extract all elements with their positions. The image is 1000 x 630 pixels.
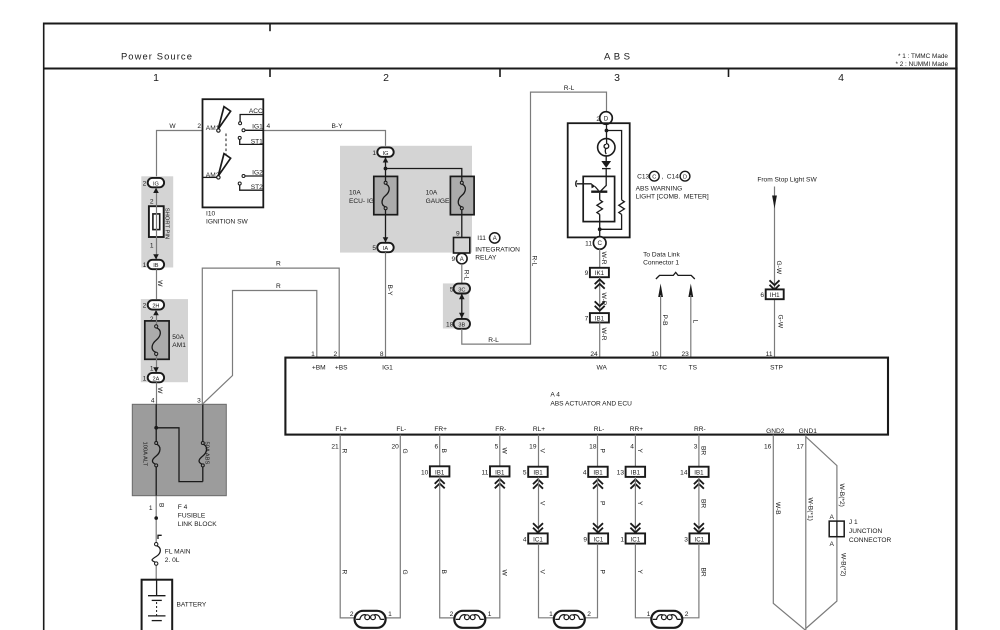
svg-text:10: 10: [651, 351, 659, 358]
svg-text:3: 3: [614, 72, 620, 84]
svg-text:IB: IB: [153, 263, 159, 269]
connector 18 3B oval: [446, 319, 470, 329]
wire RR+ Y lower: [635, 544, 651, 618]
arrow down into IB oval: [153, 254, 159, 259]
svg-text:3: 3: [684, 536, 688, 543]
contact ST1: [238, 136, 263, 145]
chevrons up below IB1 RL+: [533, 479, 543, 488]
chevrons up below IB1 FR-: [495, 479, 505, 488]
svg-text:11: 11: [585, 240, 592, 247]
svg-text:V: V: [539, 570, 546, 575]
svg-text:P-B: P-B: [661, 315, 668, 327]
svg-text:A: A: [493, 236, 497, 242]
svg-text:4: 4: [151, 398, 155, 405]
contact ACC: [239, 108, 263, 125]
svg-text:W: W: [500, 570, 507, 577]
fuse FL MAIN 2.0L: [152, 543, 191, 566]
svg-text:IB1: IB1: [595, 316, 605, 323]
svg-text:GND1: GND1: [799, 428, 818, 435]
svg-text:2: 2: [587, 611, 591, 618]
wire W from IB to 2H: [156, 269, 158, 300]
svg-text:,: ,: [662, 173, 664, 180]
transistor bar: [591, 190, 607, 192]
svg-text:11: 11: [766, 351, 773, 358]
resistor right zigzag: [619, 200, 625, 215]
svg-text:2: 2: [596, 116, 600, 123]
svg-text:ABS WARNING: ABS WARNING: [636, 186, 683, 193]
connector 3 IC1: [684, 533, 709, 543]
transistor Q base lead and hook: [576, 181, 592, 187]
wire W-B(*1) GND1 straight: [805, 435, 807, 630]
svg-text:10: 10: [421, 469, 429, 476]
svg-text:18: 18: [589, 443, 597, 450]
svg-text:13: 13: [617, 470, 625, 477]
junction node top: [605, 129, 609, 133]
wire B from block to battery: [155, 496, 157, 580]
contact IG2: [242, 169, 263, 177]
svg-text:P: P: [599, 449, 606, 454]
svg-text:L: L: [691, 320, 698, 324]
svg-text:FR+: FR+: [434, 426, 447, 433]
wire RL+ mid: [538, 477, 540, 534]
svg-text:I11: I11: [477, 235, 486, 242]
svg-text:9: 9: [452, 256, 456, 263]
svg-text:IGNITION SW: IGNITION SW: [206, 219, 249, 226]
svg-text:INTEGRATION: INTEGRATION: [475, 247, 520, 254]
connector 11 C circle: [585, 237, 606, 250]
svg-text:2: 2: [450, 611, 454, 618]
wire RL- mid: [597, 477, 599, 534]
wire FR+ B lower: [440, 477, 455, 618]
svg-text:D: D: [683, 174, 687, 180]
frame top border line: [43, 23, 958, 25]
connector 2 IG oval: [143, 178, 164, 187]
svg-text:* 2 : NUMMI Made: * 2 : NUMMI Made: [895, 61, 948, 68]
svg-text:20: 20: [391, 443, 399, 450]
svg-text:BR: BR: [699, 568, 706, 577]
fuse 50A AM1 box: [145, 321, 169, 359]
svg-text:BR: BR: [699, 446, 706, 455]
svg-text:IB1: IB1: [631, 470, 641, 477]
ignition switch I10 body: [203, 99, 264, 207]
svg-text:IG1: IG1: [382, 364, 393, 371]
wire between IK1 and IB1: [599, 277, 601, 313]
svg-text:1: 1: [311, 351, 315, 358]
svg-text:B-Y: B-Y: [386, 285, 393, 297]
svg-text:50A ABS: 50A ABS: [204, 442, 210, 465]
svg-text:C13: C13: [637, 173, 649, 180]
junction dot in block: [154, 426, 158, 430]
svg-text:RL-: RL-: [594, 426, 605, 433]
svg-text:2H: 2H: [152, 304, 159, 310]
chevrons down above IC1 RR-: [694, 523, 704, 532]
svg-text:FL MAIN: FL MAIN: [165, 549, 191, 556]
branch wire to GAUGE fuse: [386, 169, 462, 238]
svg-text:FL+: FL+: [335, 426, 347, 433]
svg-text:CONNECTOR: CONNECTOR: [849, 537, 892, 544]
svg-text:10A: 10A: [426, 190, 438, 197]
svg-text:IG2: IG2: [252, 169, 263, 176]
svg-text:100A ALT: 100A ALT: [142, 442, 148, 467]
svg-text:2A: 2A: [152, 376, 159, 382]
svg-text:V: V: [539, 501, 546, 506]
svg-text:A 4: A 4: [550, 391, 560, 398]
wire RL+ V upper: [538, 435, 540, 467]
svg-text:A: A: [829, 541, 834, 548]
svg-text:GAUGE: GAUGE: [426, 198, 450, 205]
svg-text:FR-: FR-: [495, 426, 506, 433]
frame right border: [955, 23, 957, 630]
emitter lead and resistor feed: [595, 187, 600, 237]
connector 9 IC1: [583, 533, 608, 543]
wire TC with up arrow: [658, 284, 663, 358]
svg-text:2: 2: [150, 199, 154, 206]
relay connector A circle pin 9: [452, 253, 468, 264]
svg-text:P: P: [599, 501, 606, 506]
svg-text:2: 2: [143, 180, 147, 187]
svg-text:IG1: IG1: [252, 123, 263, 130]
svg-text:4: 4: [267, 123, 271, 130]
chevrons up below IB1 RR-: [694, 479, 704, 488]
svg-text:AM1: AM1: [172, 342, 186, 349]
fuse 10A ECU-IG element: [349, 181, 389, 209]
svg-text:R-L: R-L: [462, 270, 469, 281]
gray panel short pin: [141, 176, 173, 267]
svg-text:1: 1: [488, 611, 492, 618]
svg-text:1: 1: [143, 375, 147, 382]
svg-text:Connector 1: Connector 1: [643, 260, 679, 267]
chevrons up below IK1: [595, 279, 605, 288]
svg-text:GND2: GND2: [766, 428, 785, 435]
wire TS with up arrow: [688, 284, 693, 358]
battery: [142, 580, 207, 630]
wire FL- G: [386, 435, 400, 618]
svg-text:RR+: RR+: [630, 426, 644, 433]
connector 13 IB1: [617, 467, 645, 477]
svg-text:5: 5: [450, 286, 454, 293]
transistor inner box: [583, 176, 614, 221]
speed sensor RR: [647, 611, 689, 628]
fuse 10A GAUGE element: [426, 181, 466, 209]
svg-text:C: C: [597, 240, 602, 247]
svg-text:W-R: W-R: [600, 328, 607, 341]
junction connector J1: [829, 514, 891, 548]
svg-text:P: P: [599, 570, 606, 575]
svg-text:6: 6: [435, 443, 439, 450]
svg-text:W-B: W-B: [774, 502, 781, 515]
arrow down into 2A oval: [153, 367, 159, 372]
svg-text:G: G: [401, 449, 408, 454]
connector 5 IA oval: [372, 243, 393, 252]
wire B-Y from ignition SW IG1 pin 4 to ECU-IG fuse: [264, 131, 386, 148]
svg-text:TC: TC: [658, 364, 667, 371]
svg-text:1: 1: [150, 366, 154, 373]
svg-text:W-B(*2): W-B(*2): [839, 553, 846, 576]
wire RR+ mid: [634, 477, 636, 534]
svg-text:R: R: [341, 570, 348, 575]
svg-text:B: B: [157, 503, 164, 508]
AM2 internal stub wire: [203, 176, 217, 178]
wire FR- W lower: [484, 477, 499, 618]
svg-text:2: 2: [685, 611, 689, 618]
speed sensor RL: [549, 611, 591, 628]
svg-text:2: 2: [334, 351, 338, 358]
connector 1 IG oval: [372, 147, 393, 156]
svg-text:R: R: [276, 283, 281, 290]
svg-text:7: 7: [585, 316, 589, 323]
fusible link block F4 body: [132, 404, 226, 495]
svg-text:1: 1: [647, 611, 651, 618]
combination meter outer box: [568, 123, 630, 237]
wire W-R from C to IK1: [599, 249, 601, 268]
svg-text:R-L: R-L: [488, 337, 499, 344]
svg-text:9: 9: [583, 536, 587, 543]
chevrons down above IB1: [595, 301, 605, 310]
wire W-R from IB1 to ABS WA pin 24: [599, 323, 601, 358]
svg-text:LINK BLOCK: LINK BLOCK: [178, 521, 217, 528]
svg-text:IB1: IB1: [694, 470, 704, 477]
svg-text:G-W: G-W: [775, 261, 782, 275]
svg-text:B: B: [440, 570, 447, 575]
connector 1 IC1: [620, 533, 645, 543]
connector 10 IB1: [421, 466, 449, 476]
svg-text:1: 1: [620, 536, 624, 543]
connector 2 2H oval: [143, 300, 164, 309]
column tick 1|2: [269, 69, 271, 78]
svg-text:J 1: J 1: [849, 519, 858, 526]
connector junction 6 IH1: [760, 289, 783, 299]
diode LED: [601, 161, 611, 169]
gray fuse panel col2: [340, 146, 472, 253]
gang dashed link: [225, 134, 227, 156]
svg-text:+BS: +BS: [335, 364, 348, 371]
svg-text:1: 1: [153, 72, 159, 84]
svg-text:IC1: IC1: [694, 536, 704, 543]
wire W from ignition SW AM1 pin 2 to connector IG: [157, 131, 203, 178]
svg-text:3: 3: [197, 398, 201, 405]
connector 11 IB1: [482, 466, 510, 476]
svg-text:9: 9: [585, 270, 589, 277]
svg-text:W: W: [156, 387, 163, 394]
svg-text:9: 9: [456, 231, 460, 238]
svg-text:R: R: [276, 261, 281, 268]
connector 1 2A oval: [143, 373, 164, 382]
svg-text:23: 23: [681, 351, 689, 358]
fuse 100A ALT: [142, 442, 160, 467]
connector 4 IC1: [523, 533, 548, 543]
AM2 lever: [217, 154, 231, 179]
connector 1 IB oval: [143, 260, 164, 269]
svg-text:17: 17: [796, 443, 804, 450]
chevrons down above IC1 RL+: [533, 523, 543, 532]
wire RR- BR upper: [698, 435, 700, 467]
svg-text:ABS: ABS: [604, 52, 633, 63]
lamp ABS warning bulb: [598, 139, 615, 156]
column tick 2|3: [499, 69, 501, 78]
svg-text:BR: BR: [699, 499, 706, 508]
wire RR- mid: [698, 477, 700, 534]
chevrons down above IC1 RL-: [593, 523, 603, 532]
inline connector hook: [158, 535, 162, 539]
svg-text:F 4: F 4: [178, 504, 188, 511]
svg-text:4: 4: [838, 72, 844, 84]
svg-text:BATTERY: BATTERY: [177, 602, 207, 609]
wire RL- P lower: [584, 544, 598, 618]
svg-text:IB1: IB1: [435, 469, 445, 476]
svg-text:2. 0L: 2. 0L: [165, 557, 180, 564]
svg-text:5: 5: [372, 245, 376, 252]
arrow up into IG oval: [153, 188, 159, 193]
wire through short pin: [156, 188, 158, 260]
svg-text:R: R: [341, 449, 348, 454]
svg-text:4: 4: [630, 443, 634, 450]
svg-text:B: B: [440, 449, 447, 454]
junction dot: [384, 167, 388, 171]
fuse 10A ECU-IG box: [374, 176, 398, 214]
svg-text:G: G: [401, 570, 408, 575]
svg-text:* 1 : TMMC Made: * 1 : TMMC Made: [898, 53, 948, 60]
chevrons up below IB1 RR+: [630, 479, 640, 488]
wire through AM1 fuse: [156, 310, 158, 372]
svg-text:1: 1: [388, 611, 392, 618]
wire RR+ Y upper: [634, 435, 636, 467]
svg-text:14: 14: [680, 470, 688, 477]
svg-text:W: W: [169, 123, 176, 130]
wire R (upper) from pin 3 to ABS +BS: [202, 268, 339, 404]
svg-text:2: 2: [143, 303, 147, 310]
svg-text:FL-: FL-: [396, 426, 406, 433]
svg-text:24: 24: [590, 351, 598, 358]
svg-text:From Stop Light SW: From Stop Light SW: [757, 176, 817, 183]
svg-text:W-R: W-R: [600, 252, 607, 265]
speed sensor FR: [450, 611, 492, 628]
svg-text:11: 11: [482, 469, 489, 476]
wire RL- P upper: [597, 435, 599, 467]
svg-text:Y: Y: [636, 570, 643, 575]
svg-text:3B: 3B: [458, 323, 465, 329]
svg-text:I10: I10: [206, 211, 215, 218]
wire RR- BR lower: [681, 544, 699, 618]
wire W from 2A to fusible link block pin 4: [156, 382, 158, 404]
gray panel 50A AM1: [141, 299, 188, 382]
svg-text:5: 5: [495, 443, 499, 450]
svg-text:IA: IA: [383, 246, 389, 252]
svg-text:8: 8: [380, 351, 384, 358]
arrow down into IA oval: [383, 237, 389, 242]
short pin component: [149, 206, 170, 239]
svg-text:IG: IG: [153, 181, 159, 187]
svg-text:IB1: IB1: [533, 470, 543, 477]
svg-text:3C: 3C: [458, 287, 465, 293]
connector 4 IB1: [583, 467, 608, 477]
ABS actuator and ECU box A4: [285, 358, 888, 435]
svg-text:W: W: [156, 280, 163, 287]
frame header separator line: [43, 68, 958, 70]
svg-text:SHORT PIN: SHORT PIN: [164, 208, 170, 239]
svg-text:6: 6: [760, 292, 764, 299]
right parallel resistor branch: [600, 131, 622, 230]
svg-text:LIGHT [COMB. METER]: LIGHT [COMB. METER]: [636, 194, 709, 201]
svg-text:ABS ACTUATOR AND ECU: ABS ACTUATOR AND ECU: [550, 400, 632, 407]
speed sensor FL: [350, 611, 392, 628]
svg-text:A: A: [460, 257, 464, 263]
wire FR+ B upper: [439, 435, 441, 467]
wire diode to transistor: [601, 155, 607, 191]
section tick on top line: [269, 24, 271, 32]
svg-text:IB1: IB1: [495, 469, 505, 476]
connector 2 D circle: [596, 112, 612, 125]
svg-text:To Data Link: To Data Link: [643, 252, 680, 259]
svg-text:WA: WA: [597, 364, 608, 371]
svg-text:2: 2: [350, 611, 354, 618]
AM1 lever: [217, 107, 231, 133]
svg-text:RR-: RR-: [694, 426, 706, 433]
svg-text:IK1: IK1: [595, 270, 605, 277]
svg-text:19: 19: [529, 443, 537, 450]
svg-text:R-L: R-L: [564, 85, 575, 92]
column tick 3|4: [728, 69, 730, 78]
fuse 50A ABS: [199, 442, 210, 467]
arrow up into IG oval: [383, 157, 389, 162]
svg-text:1: 1: [372, 150, 376, 157]
svg-text:4: 4: [523, 536, 527, 543]
wire R-L from 3B up to warning light feed: [462, 92, 607, 344]
connector 14 IB1: [680, 467, 708, 477]
gray panel 3C 3B: [443, 283, 469, 328]
svg-text:FUSIBLE: FUSIBLE: [178, 513, 206, 520]
svg-text:16: 16: [764, 443, 772, 450]
chevrons up below IB1 RL-: [593, 479, 603, 488]
connector junction 9 IK1: [585, 268, 609, 277]
svg-text:IG: IG: [383, 151, 389, 157]
svg-text:IH1: IH1: [770, 292, 780, 299]
internal wire through 100A ALT: [155, 404, 157, 495]
wire RL+ V lower: [539, 544, 555, 618]
svg-text:50A: 50A: [172, 334, 184, 341]
integration relay box: [454, 238, 470, 254]
connector 5 3C oval: [450, 284, 470, 294]
svg-text:1: 1: [149, 505, 153, 512]
svg-text:C14: C14: [667, 173, 679, 180]
contact IG1: [242, 123, 263, 132]
svg-text:+BM: +BM: [312, 364, 326, 371]
internal link wire to ABS fuse: [156, 404, 203, 481]
svg-text:RELAY: RELAY: [475, 255, 497, 262]
wire W-B from GND2 to ground point: [773, 435, 806, 630]
wire from IG oval to ECU-IG fuse: [385, 157, 387, 242]
connector 5 IB1: [523, 467, 548, 477]
relay name I11 (A) INTEGRATION RELAY: [475, 233, 520, 262]
chevrons down above IH1: [770, 280, 780, 289]
fuse 50A AM1 element: [152, 325, 186, 356]
wire R (lower) from pin 3 to ABS +BM: [202, 291, 316, 405]
svg-text:C: C: [652, 174, 656, 180]
svg-text:Y: Y: [636, 449, 643, 454]
svg-text:IC1: IC1: [533, 536, 543, 543]
svg-text:18: 18: [446, 322, 454, 329]
svg-text:ECU- IG: ECU- IG: [349, 198, 374, 205]
fuse 10A GAUGE box: [450, 176, 474, 214]
svg-text:A: A: [829, 514, 834, 521]
svg-text:R-L: R-L: [531, 256, 538, 267]
svg-text:1: 1: [143, 262, 147, 269]
svg-text:1: 1: [549, 611, 553, 618]
svg-text:21: 21: [331, 443, 339, 450]
svg-text:RL+: RL+: [533, 426, 545, 433]
wire FR- W upper: [499, 435, 501, 467]
svg-text:2: 2: [197, 123, 201, 130]
svg-text:G-W: G-W: [777, 315, 784, 329]
